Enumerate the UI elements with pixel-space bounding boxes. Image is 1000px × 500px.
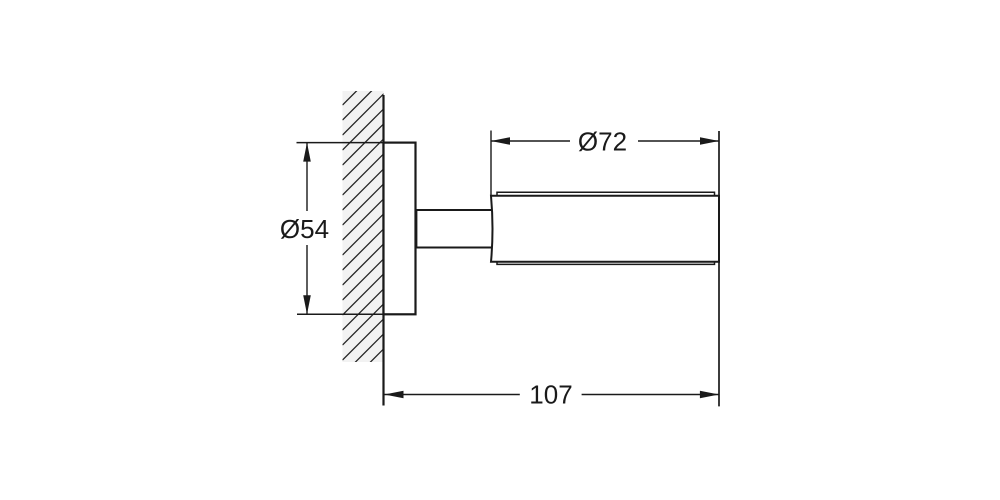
stem left cap bbox=[415, 209, 417, 249]
stem top line bbox=[416, 209, 494, 211]
dim107 line right segment bbox=[582, 394, 719, 396]
wall hatching bbox=[343, 58, 391, 406]
dim72 right arrow bbox=[700, 137, 719, 145]
dim54 extension line top bbox=[297, 142, 385, 144]
wall face line bbox=[382, 95, 384, 406]
holder cylinder body bbox=[491, 196, 719, 262]
dim72 line left segment bbox=[491, 140, 570, 142]
dim72 left arrow bbox=[491, 137, 510, 145]
dim54 extension line bottom bbox=[297, 313, 384, 315]
cylinder rim bottom bbox=[497, 261, 715, 264]
dim54 bottom arrow bbox=[303, 295, 311, 314]
svg-text:Ø72: Ø72 bbox=[578, 127, 627, 157]
svg-text:Ø54: Ø54 bbox=[280, 214, 329, 244]
wall plate bbox=[384, 143, 416, 315]
dim72 left extension line bbox=[490, 131, 492, 196]
cylinder right edge / dim extension line bbox=[718, 131, 720, 406]
cylinder rim top bbox=[497, 192, 715, 196]
dim107 line left segment bbox=[385, 394, 520, 396]
dim107 right arrow bbox=[700, 391, 719, 399]
dim72 line right segment bbox=[638, 140, 719, 142]
dim54 line top segment bbox=[306, 143, 308, 211]
stem bottom line bbox=[416, 247, 494, 249]
dim54 top arrow bbox=[303, 143, 311, 162]
dim54 line bottom segment bbox=[306, 245, 308, 314]
svg-text:107: 107 bbox=[529, 379, 572, 409]
dim107 left arrow bbox=[385, 391, 404, 399]
